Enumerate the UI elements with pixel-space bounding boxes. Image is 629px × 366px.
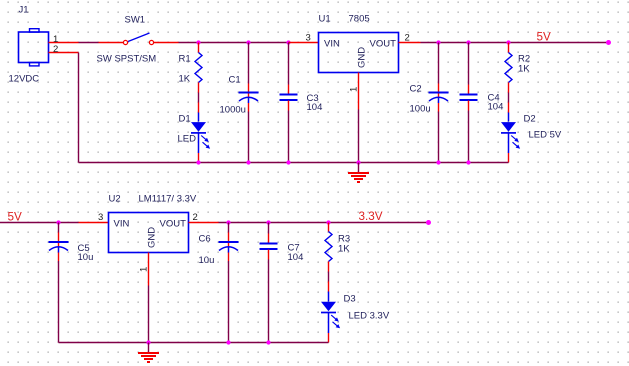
- svg-text:GND: GND: [357, 47, 368, 68]
- svg-text:2: 2: [193, 212, 198, 223]
- op-amp U1 regulator 7805: [319, 33, 399, 73]
- svg-text:LM1117/ 3.3V: LM1117/ 3.3V: [139, 194, 197, 205]
- svg-text:SW SPST/SM: SW SPST/SM: [97, 54, 157, 65]
- LED D2: [501, 103, 520, 163]
- svg-text:3.3V: 3.3V: [359, 210, 383, 223]
- node junction C3 top: [286, 40, 290, 44]
- wire J1 pin2 down: [78, 53, 80, 163]
- pin 2 of J1: [49, 52, 79, 54]
- node junction C5 top: [56, 220, 60, 224]
- ground symbol top circuit: [348, 163, 369, 183]
- node 3.3V endpoint: [426, 220, 431, 225]
- resistor R1: [195, 43, 202, 93]
- node junction R3 top: [326, 220, 330, 224]
- svg-text:1: 1: [349, 87, 360, 92]
- wire U2 gnd to rail: [148, 286, 150, 343]
- capacitor C6: [219, 223, 239, 343]
- svg-text:C1: C1: [229, 75, 241, 86]
- svg-text:7805: 7805: [349, 14, 370, 25]
- node junction C7 bottom: [266, 340, 270, 344]
- svg-text:5V: 5V: [8, 211, 23, 224]
- svg-text:VOUT: VOUT: [160, 219, 187, 230]
- svg-text:100u: 100u: [410, 104, 431, 115]
- wire 5V input: [0, 222, 79, 224]
- wire U2 out to 3.3V end: [219, 222, 429, 224]
- node junction C7 top: [266, 220, 270, 224]
- svg-text:1K: 1K: [179, 74, 191, 85]
- pin 1 of U2 (GND): [148, 253, 150, 286]
- pin 3 of U1: [289, 42, 319, 44]
- svg-text:D1: D1: [179, 114, 191, 125]
- wire R2 to D2: [508, 93, 510, 103]
- switch SW1: [99, 33, 179, 45]
- wire pin1 to switch: [79, 42, 99, 44]
- node junction R2 top: [506, 40, 510, 44]
- capacitor C3: [280, 43, 298, 163]
- svg-text:3: 3: [98, 212, 103, 223]
- node junction C4 top: [466, 40, 470, 44]
- capacitor C2: [429, 43, 449, 163]
- pin 3 of U2: [79, 222, 109, 224]
- pin 1 of J1: [49, 42, 79, 44]
- connector J1: [19, 29, 49, 66]
- node junction C2 bottom: [436, 160, 440, 164]
- capacitor C1: [239, 43, 259, 163]
- node junction R1 top: [196, 40, 200, 44]
- ground symbol bottom circuit: [138, 343, 159, 363]
- node junction C6 top: [226, 220, 230, 224]
- node 5V endpoint: [606, 40, 611, 45]
- node junction C1 top: [246, 40, 250, 44]
- node junction C4 bottom: [466, 160, 470, 164]
- wire ground rail bottom circuit: [59, 342, 329, 344]
- svg-text:1000u: 1000u: [220, 105, 246, 116]
- svg-text:U2: U2: [109, 194, 121, 205]
- node junction gnd rail bottom: [146, 340, 150, 344]
- svg-text:104: 104: [288, 252, 304, 263]
- node junction C1 bottom: [246, 160, 250, 164]
- svg-text:U1: U1: [319, 14, 331, 25]
- resistor R2: [505, 43, 512, 93]
- node junction C6 bottom: [226, 340, 230, 344]
- svg-text:10u: 10u: [78, 252, 94, 263]
- svg-text:5V: 5V: [537, 31, 552, 44]
- svg-text:D3: D3: [344, 294, 356, 305]
- resistor R3: [325, 223, 332, 272]
- node junction D1 bottom: [196, 160, 200, 164]
- capacitor C5: [49, 223, 69, 343]
- svg-text:1: 1: [139, 267, 150, 272]
- svg-text:C6: C6: [199, 234, 211, 245]
- svg-text:104: 104: [307, 102, 323, 113]
- svg-text:104: 104: [488, 102, 504, 113]
- svg-text:2: 2: [53, 44, 58, 55]
- svg-text:2: 2: [405, 33, 410, 44]
- capacitor C4: [460, 43, 478, 163]
- svg-text:1K: 1K: [338, 244, 350, 255]
- svg-text:LED 5V: LED 5V: [529, 130, 562, 141]
- svg-text:GND: GND: [147, 227, 158, 248]
- LED D1: [191, 103, 210, 163]
- svg-text:LED: LED: [178, 134, 197, 145]
- op-amp U2 regulator LM1117: [109, 213, 189, 253]
- wire ground rail top circuit: [79, 162, 509, 164]
- svg-text:LED 3.3V: LED 3.3V: [349, 311, 390, 322]
- svg-text:10u: 10u: [199, 255, 215, 266]
- pin 2 of U2: [189, 222, 219, 224]
- svg-text:VOUT: VOUT: [370, 39, 397, 50]
- svg-text:3: 3: [306, 33, 311, 44]
- node junction C3 bottom: [286, 160, 290, 164]
- LED D3: [321, 282, 340, 343]
- svg-text:12VDC: 12VDC: [9, 74, 40, 85]
- svg-text:J1: J1: [19, 5, 29, 16]
- pin 1 of U1 (GND): [358, 73, 360, 110]
- svg-text:1K: 1K: [518, 64, 530, 75]
- svg-text:R1: R1: [179, 54, 191, 65]
- node junction C2 top: [436, 40, 440, 44]
- node junction GND rail: [356, 160, 360, 164]
- svg-text:D2: D2: [524, 114, 536, 125]
- capacitor C7: [260, 223, 278, 343]
- svg-text:VIN: VIN: [324, 39, 340, 50]
- svg-text:C2: C2: [410, 84, 422, 95]
- svg-text:SW1: SW1: [125, 15, 146, 26]
- wire U1 gnd to rail: [358, 110, 360, 163]
- wire U1 out to 5V end: [421, 42, 609, 44]
- pin 2 of U1: [399, 42, 421, 44]
- wire switch to U1 pin3: [179, 42, 289, 44]
- wire R3 to D3: [328, 272, 330, 282]
- svg-text:VIN: VIN: [114, 219, 130, 230]
- wire R1 to D1: [198, 93, 200, 103]
